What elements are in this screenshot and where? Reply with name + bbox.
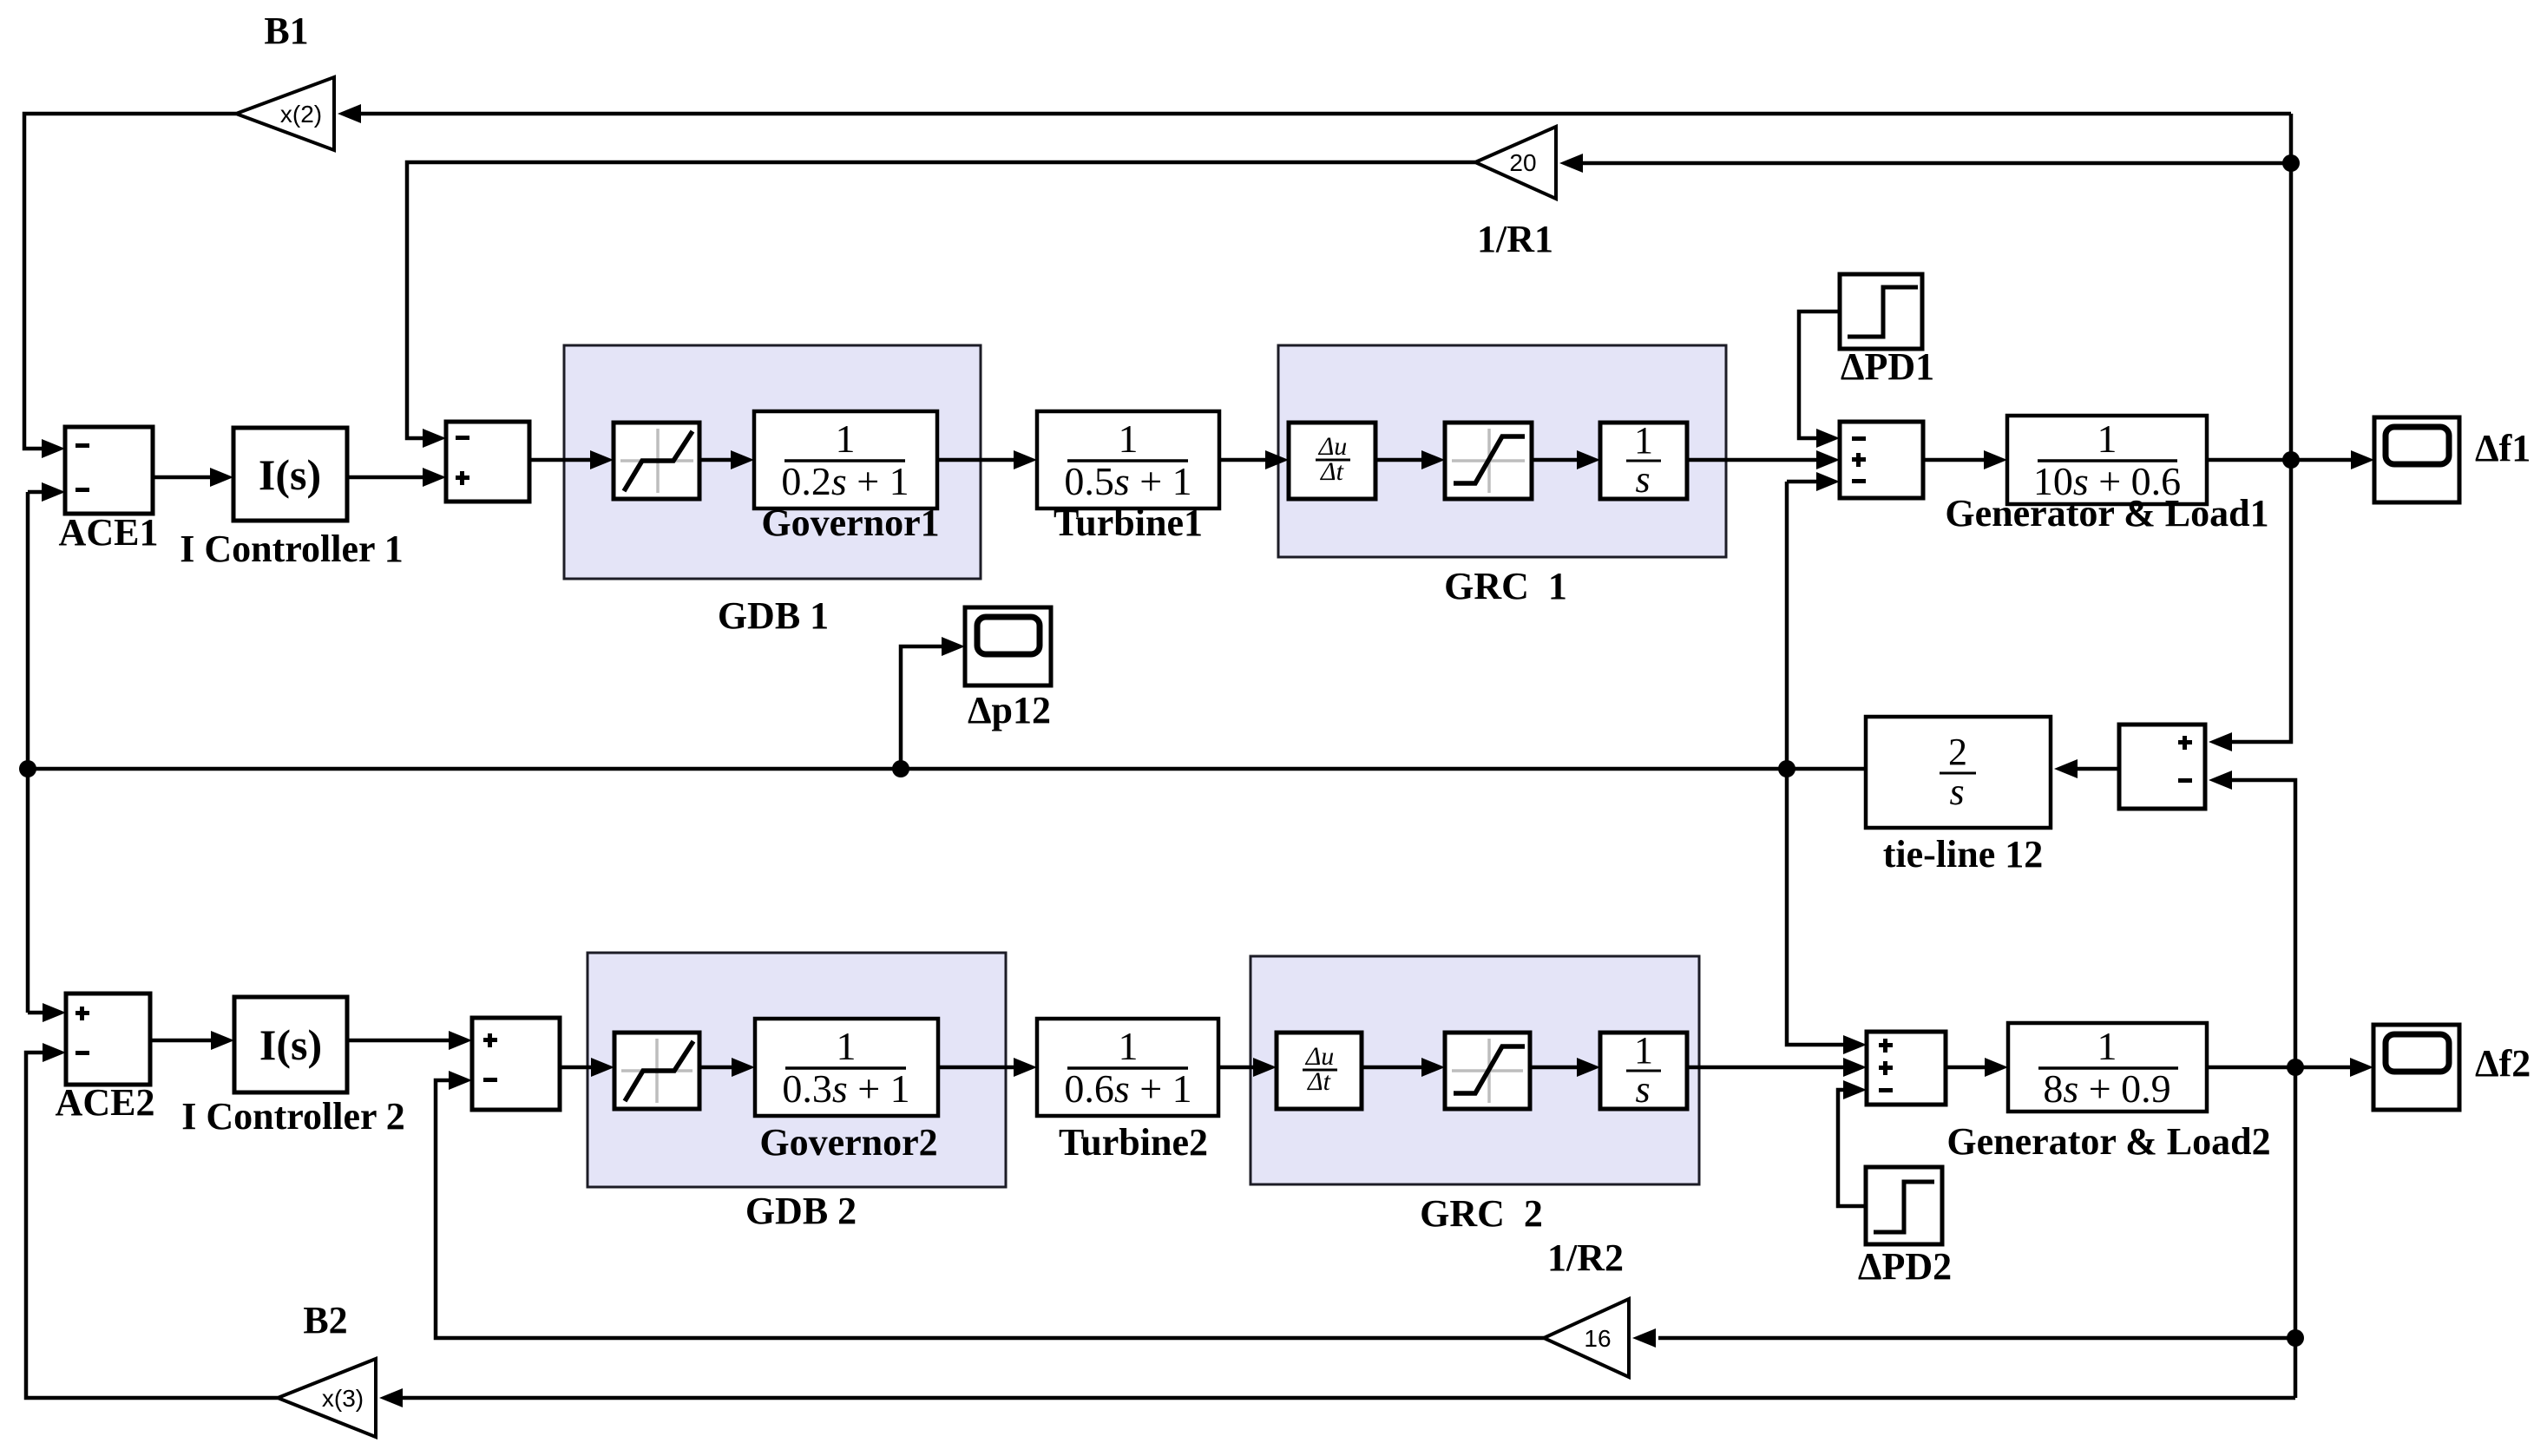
wire B1 feedback (right bus to x(2)) [338, 104, 2291, 123]
wire sum2 to Generator Load1 [1923, 450, 2007, 469]
wire 1/R2 to sum1b minus [436, 1071, 1544, 1338]
svg-text:1: 1 [1634, 1029, 1653, 1072]
block Governor2 [755, 1019, 938, 1116]
GDB 2 group box [588, 953, 1006, 1232]
svg-text:16: 16 [1584, 1325, 1611, 1352]
svg-text:1: 1 [2097, 1024, 2117, 1068]
block tie-line 12 (2/s) [1866, 717, 2051, 828]
svg-text:8s + 0.9: 8s + 0.9 [2043, 1066, 2170, 1111]
wire into ACE1 input 2 arrow [42, 482, 65, 502]
wire deadzone to Governor1 [699, 450, 754, 469]
gain x(2) [236, 77, 334, 150]
wire ACE2 to I Controller 2 [150, 1031, 234, 1050]
wire 1/s to sum2 middle [1687, 450, 1840, 469]
svg-text:I(s): I(s) [259, 1020, 322, 1069]
wire du/dt to rate limiter 1 [1375, 450, 1445, 469]
svg-text:s: s [1635, 1068, 1650, 1111]
wire I(s) to sum1 plus [347, 468, 446, 487]
svg-text:Governor2: Governor2 [759, 1121, 937, 1164]
svg-text:Generator & Load1: Generator & Load1 [1945, 492, 2268, 535]
wire dPD2 to sum2b bottom [1838, 1080, 1867, 1206]
scope Δf1 [2374, 417, 2459, 502]
svg-text:ΔPD2: ΔPD2 [1858, 1245, 1952, 1288]
wire du/dt2 to rate limiter 2 [1362, 1058, 1445, 1077]
wire Δf2 bus to x(3) [379, 1388, 2295, 1407]
wire tie sum to tie-line block [2054, 759, 2119, 778]
wire right vertical Δf1 bus [2232, 114, 2291, 742]
svg-text:GDB 1: GDB 1 [718, 594, 829, 637]
sum sum2 [1840, 422, 1923, 498]
sum sum2b [1867, 1032, 1946, 1105]
arrow into tie sum plus [2209, 732, 2232, 751]
wire Governor1 to Turbine1 [937, 450, 1037, 469]
svg-text:Generator & Load2: Generator & Load2 [1946, 1120, 2270, 1163]
wire ACE1 to I Controller 1 [153, 468, 233, 487]
sum sum1 [446, 422, 529, 502]
svg-text:1: 1 [2097, 416, 2117, 461]
svg-text:Governor1: Governor1 [761, 502, 939, 544]
wire dPD1 to sum2 top [1799, 312, 1840, 448]
svg-text:Δf2: Δf2 [2475, 1042, 2531, 1085]
wire 1/R1 tap [1559, 154, 2291, 173]
scope Δp12 [965, 607, 1051, 685]
block deadzone 2 [614, 1033, 699, 1109]
wire left vertical ACE link [28, 482, 66, 1022]
svg-text:0.3s + 1: 0.3s + 1 [782, 1066, 909, 1111]
svg-text:s: s [1635, 458, 1650, 501]
scope Δf2 [2373, 1025, 2459, 1110]
svg-text:B2: B2 [303, 1299, 347, 1341]
svg-text:0.5s + 1: 0.5s + 1 [1064, 459, 1191, 503]
sum ACE2 [66, 994, 150, 1085]
GRC 2 group box [1251, 956, 1699, 1235]
svg-text:tie-line 12: tie-line 12 [1883, 833, 2044, 876]
block rate limiter 1 [1445, 423, 1532, 499]
block Governor1 [754, 411, 937, 508]
block I Controller 2 [234, 997, 347, 1092]
wire Turbine2 to du/dt 2 [1218, 1058, 1277, 1077]
wire x(2) output to ACE1 input 1 [24, 114, 236, 458]
svg-text:0.6s + 1: 0.6s + 1 [1064, 1066, 1191, 1111]
gain 20 (1/R1) [1475, 127, 1556, 199]
svg-text:Δf1: Δf1 [2475, 427, 2531, 469]
block rate limiter 2 [1445, 1033, 1530, 1109]
block step dPD1 [1840, 274, 1922, 349]
block I Controller 1 [233, 428, 347, 521]
svg-text:I(s): I(s) [259, 450, 321, 499]
wire sum1b to deadzone2 [560, 1058, 614, 1077]
svg-text:1: 1 [1634, 419, 1653, 462]
svg-text:Δp12: Δp12 [968, 689, 1051, 731]
svg-text:Δt: Δt [1320, 457, 1344, 486]
svg-text:2: 2 [1948, 731, 1967, 773]
sum tie sum [2119, 725, 2205, 809]
wire sum1 to deadzone [529, 450, 614, 469]
svg-text:1: 1 [837, 1024, 857, 1068]
wire Δf2 bus vertical [2209, 771, 2295, 1398]
svg-text:Δt: Δt [1307, 1067, 1331, 1096]
svg-text:1: 1 [836, 416, 856, 461]
svg-text:1: 1 [1119, 416, 1139, 461]
block step dPD2 [1866, 1167, 1942, 1244]
wire I(s)2 to sum1b plus [347, 1031, 472, 1050]
wire rate limiter to 1/s 1 [1532, 450, 1600, 469]
wire 1/R2 tap [1632, 1328, 2295, 1348]
svg-text:x(3): x(3) [322, 1385, 364, 1412]
svg-text:1/R1: 1/R1 [1477, 218, 1553, 260]
block Turbine1 [1037, 411, 1219, 508]
svg-text:ACE2: ACE2 [56, 1081, 155, 1124]
block integrator 1/s 2 [1600, 1029, 1687, 1111]
sum ACE1 [65, 427, 153, 514]
svg-text:Turbine1: Turbine1 [1054, 502, 1203, 544]
svg-text:GRC 2: GRC 2 [1420, 1192, 1543, 1235]
svg-text:I Controller 2: I Controller 2 [181, 1095, 404, 1138]
gain 16 (1/R2) [1544, 1299, 1629, 1377]
block Generator & Load2 [2008, 1023, 2207, 1112]
wire Gen2 to scope Δf2 [2207, 1058, 2373, 1077]
wire deadzone2 to Governor2 [699, 1058, 755, 1077]
svg-text:ACE1: ACE1 [59, 511, 159, 554]
block du/dt 1 [1289, 423, 1375, 499]
sum sum1b [472, 1018, 560, 1110]
svg-text:B1: B1 [264, 10, 308, 52]
wire Gen1 to scope Δf1 [2207, 450, 2374, 469]
svg-text:GRC 1: GRC 1 [1444, 565, 1567, 607]
svg-text:0.2s + 1: 0.2s + 1 [781, 459, 909, 503]
svg-text:GDB 2: GDB 2 [745, 1190, 857, 1232]
svg-text:20: 20 [1509, 149, 1536, 176]
wire Turbine1 to du/dt 1 [1219, 450, 1289, 469]
wire x(3) output to ACE2 input 2 [26, 1043, 278, 1398]
svg-text:ΔPD1: ΔPD1 [1841, 345, 1934, 388]
GRC 1 group box [1278, 345, 1726, 607]
block Generator & Load1 [2007, 416, 2207, 504]
block deadzone 1 [614, 423, 699, 499]
wire tie vertical to both sums [1787, 472, 1867, 1054]
wire rate limiter2 to 1/s 2 [1530, 1058, 1600, 1077]
svg-text:x(2): x(2) [280, 101, 322, 128]
wire 20 output to sum1 minus [407, 162, 1475, 448]
GDB 1 group box [564, 345, 981, 637]
wire Δp12 tap [901, 637, 965, 769]
svg-text:I Controller 1: I Controller 1 [180, 528, 403, 570]
block du/dt 2 [1277, 1033, 1362, 1109]
gain x(3) (B2) [278, 1359, 376, 1437]
wire Governor2 to Turbine2 [938, 1058, 1037, 1077]
block integrator 1/s 1 [1600, 419, 1687, 501]
svg-text:s: s [1949, 771, 1964, 813]
svg-text:1: 1 [1119, 1024, 1139, 1068]
svg-text:1/R2: 1/R2 [1547, 1236, 1624, 1279]
wire sum2b to Generator Load2 [1946, 1058, 2008, 1077]
svg-text:Turbine2: Turbine2 [1059, 1121, 1208, 1164]
wire tie-line output bus [28, 767, 1866, 771]
block Turbine2 [1037, 1019, 1218, 1116]
wire 1/s2 to sum2b middle [1687, 1058, 1867, 1077]
